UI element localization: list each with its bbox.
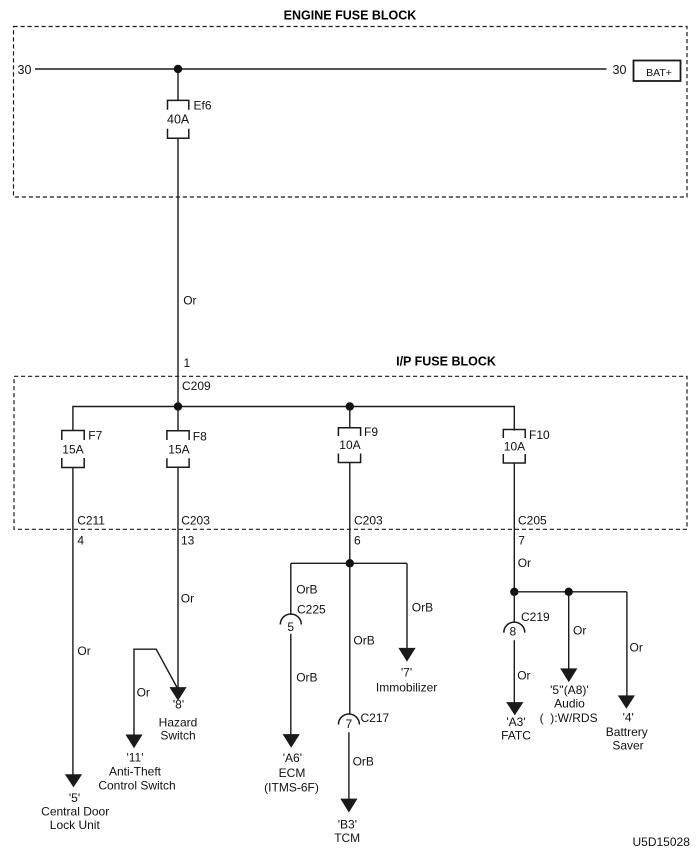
svg-text:'A3': 'A3': [506, 715, 525, 729]
svg-text:Anti-Theft: Anti-Theft: [109, 765, 162, 779]
arrow to central door lock unit: [65, 774, 82, 787]
svg-text:Or: Or: [77, 644, 90, 658]
svg-text:15A: 15A: [168, 443, 189, 457]
svg-text:C211: C211: [77, 513, 105, 527]
svg-text:8: 8: [509, 625, 516, 639]
connector C225 arc pin 5: [280, 614, 301, 634]
I/P bus wire: [73, 407, 514, 431]
svg-text:C205: C205: [518, 513, 547, 527]
engine fuse block box: [14, 27, 688, 198]
svg-text:7: 7: [518, 534, 525, 548]
wire to immobilizer: [406, 563, 408, 649]
junction dot F9 branch: [346, 559, 354, 567]
fuse F10 10A: [503, 428, 550, 463]
svg-text:Or: Or: [517, 668, 530, 682]
svg-text:7: 7: [345, 717, 352, 731]
wire to FATC via C219: [513, 592, 515, 623]
svg-text:Switch: Switch: [160, 729, 195, 743]
wire Or from Ef6 to C209: [177, 138, 179, 406]
arrow to ECM: [283, 734, 300, 748]
junction dot bus at F8: [174, 402, 182, 410]
node '5' Central Door Lock Unit label: [41, 791, 109, 832]
svg-text:Or: Or: [181, 592, 194, 606]
node 'A6' ECM (ITMS-6F) label: [264, 751, 319, 795]
horizontal wire F9 branch split: [291, 562, 407, 564]
wire bus to F9: [349, 407, 351, 428]
connector C219 arc pin 8: [504, 622, 525, 638]
wire F9 down to junction: [349, 463, 351, 564]
svg-text:ENGINE FUSE BLOCK: ENGINE FUSE BLOCK: [284, 8, 417, 22]
svg-text:(ITMS-6F): (ITMS-6F): [264, 781, 319, 795]
connector C217 arc pin 7: [338, 714, 359, 731]
svg-text:OrB: OrB: [353, 634, 374, 648]
svg-text:I/P FUSE BLOCK: I/P FUSE BLOCK: [396, 355, 496, 369]
fuse F9 10A: [338, 425, 378, 463]
svg-text:1: 1: [184, 356, 191, 370]
svg-text:F8: F8: [193, 429, 207, 443]
svg-text:C225: C225: [297, 602, 326, 616]
I/P fuse block box: [14, 376, 687, 529]
svg-text:Or: Or: [518, 556, 531, 570]
fuse Ef6 40A: [167, 98, 212, 138]
arrow to TCM: [340, 799, 357, 813]
arrow to immobilizer: [398, 648, 415, 662]
junction dot audio tap: [565, 588, 573, 596]
svg-text:6: 6: [354, 534, 361, 548]
svg-text:F10: F10: [529, 428, 550, 442]
svg-text:10A: 10A: [504, 440, 525, 454]
wire to battery saver: [626, 592, 628, 697]
node '11' Anti-Theft Control Switch label: [98, 751, 175, 793]
horizontal wire F10 branch split: [514, 591, 627, 593]
arrow to FATC: [506, 702, 523, 715]
wire F10 down to junction: [513, 463, 515, 592]
svg-text:C217: C217: [361, 711, 390, 725]
svg-text:Central Door: Central Door: [41, 805, 109, 819]
svg-text:5: 5: [287, 620, 294, 634]
svg-text:Saver: Saver: [612, 739, 643, 753]
node 'A3' FATC label: [501, 715, 531, 743]
junction dot F10 branch: [510, 588, 518, 596]
svg-text:'4': '4': [623, 711, 634, 725]
svg-text:ECM: ECM: [279, 766, 306, 780]
wire C217 to TCM: [348, 732, 350, 799]
wire F7 to central door lock: [72, 468, 74, 776]
svg-text:'5': '5': [69, 791, 80, 805]
arrow to audio: [560, 668, 577, 682]
svg-text:'5''(A8)': '5''(A8)': [550, 683, 589, 697]
svg-text:Battrery: Battrery: [606, 725, 648, 739]
svg-text:C219: C219: [521, 610, 550, 624]
svg-text:Immobilizer: Immobilizer: [376, 681, 437, 695]
svg-text:Audio: Audio: [554, 696, 585, 710]
svg-text:Or: Or: [573, 623, 586, 637]
arrow to anti-theft control switch: [125, 735, 142, 749]
wire F9 junction down to C217: [349, 563, 351, 714]
wire C225 to ECM: [290, 634, 292, 735]
fuse F7 15A: [62, 429, 103, 468]
svg-text:FATC: FATC: [501, 729, 531, 743]
svg-text:U5D15028: U5D15028: [633, 835, 691, 849]
svg-text:Or: Or: [137, 686, 150, 700]
svg-text:'8': '8': [173, 698, 184, 712]
svg-text:Hazard: Hazard: [159, 716, 198, 730]
svg-text:TCM: TCM: [334, 831, 360, 845]
svg-text:OrB: OrB: [296, 583, 317, 597]
svg-text:Lock Unit: Lock Unit: [50, 818, 101, 832]
wire to audio: [568, 592, 570, 670]
svg-text:4: 4: [77, 534, 84, 548]
node '4' Battrery Saver label: [606, 711, 648, 753]
svg-text:OrB: OrB: [296, 671, 317, 685]
svg-text:Control Switch: Control Switch: [98, 779, 175, 793]
svg-text:'A6': 'A6': [283, 751, 302, 765]
wire 30 bus: [35, 68, 607, 70]
wire from bus to fuse Ef6: [177, 69, 179, 100]
svg-text:10A: 10A: [339, 438, 360, 452]
svg-text:15A: 15A: [62, 443, 83, 457]
fuse F8 15A: [167, 429, 207, 467]
svg-text:F7: F7: [88, 429, 102, 443]
svg-text:Ef6: Ef6: [194, 98, 212, 112]
wire F8 to hazard switch: [177, 467, 179, 688]
svg-text:C209: C209: [182, 379, 211, 393]
svg-text:C203: C203: [354, 513, 383, 527]
node '8' Hazard Switch label: [159, 698, 198, 743]
svg-text:BAT+: BAT+: [646, 67, 672, 79]
junction dot bus at F9: [346, 402, 354, 410]
arrow to battery saver: [618, 695, 635, 708]
svg-text:OrB: OrB: [412, 601, 433, 615]
svg-text:30: 30: [613, 63, 627, 77]
svg-text:Or: Or: [630, 641, 643, 655]
node 'B3' TCM label: [334, 817, 360, 845]
svg-text:( ):W/RDS: ( ):W/RDS: [540, 711, 598, 725]
svg-text:Or: Or: [183, 294, 196, 308]
svg-text:'7': '7': [401, 665, 412, 679]
svg-text:40A: 40A: [167, 113, 190, 127]
svg-text:'11': '11': [126, 751, 143, 765]
wire bus to F8: [177, 407, 179, 431]
BAT+ terminal box: [634, 61, 681, 82]
svg-text:13: 13: [181, 534, 195, 548]
wire to ECM via C225: [290, 563, 292, 615]
svg-text:'B3': 'B3': [338, 817, 357, 831]
svg-text:OrB: OrB: [353, 755, 374, 769]
svg-text:30: 30: [18, 63, 32, 77]
arrow to hazard switch: [169, 687, 186, 701]
node '7' Immobilizer label: [376, 665, 437, 694]
svg-text:F9: F9: [364, 425, 378, 439]
svg-text:C203: C203: [181, 513, 210, 527]
node '5''(A8)' Audio W/RDS label: [540, 683, 598, 725]
junction dot at wire 30 / Ef6: [174, 65, 182, 73]
wire C219 to FATC: [513, 640, 515, 703]
wire tap to anti-theft switch: [134, 649, 177, 736]
